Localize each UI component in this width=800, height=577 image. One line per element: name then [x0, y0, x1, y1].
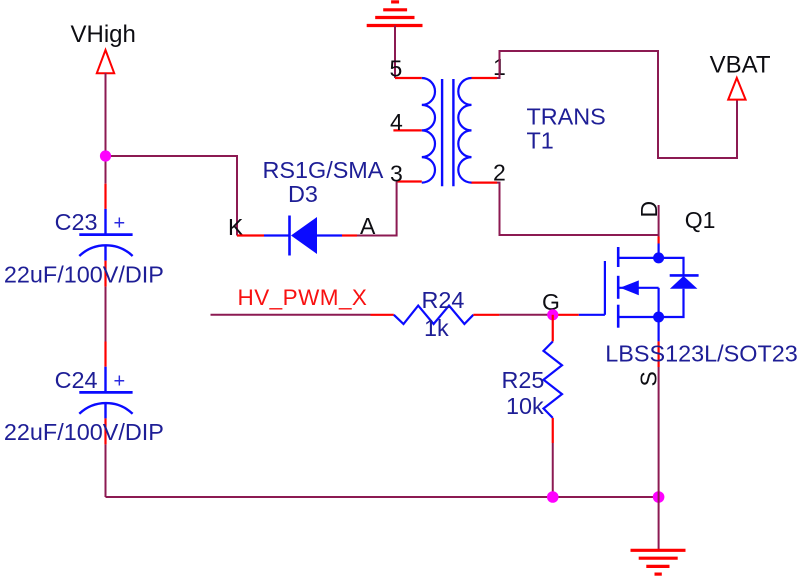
svg-text:TRANS: TRANS: [527, 103, 606, 129]
svg-text:C23: C23: [55, 209, 98, 235]
wire pin2 to Q1 drain: [497, 183, 659, 235]
R24 right pin stub: [473, 314, 499, 316]
Q1 gate pin stub: [553, 314, 579, 316]
Q1 body to source: [657, 288, 659, 317]
C24 bottom plate arc: [79, 403, 132, 414]
svg-text:D: D: [636, 201, 662, 218]
wire C23 to C24: [105, 287, 107, 342]
core lines: [441, 79, 443, 186]
D3 cathode pin stub: [237, 234, 264, 236]
svg-text:5: 5: [390, 56, 403, 82]
wire ground to transformer pin 5: [394, 26, 396, 79]
C23 bottom lead: [104, 246, 106, 261]
D3 cathode bar: [288, 216, 291, 256]
Q1 drain pin lead: [657, 244, 659, 258]
svg-text:4: 4: [390, 109, 403, 135]
svg-text:+: +: [114, 213, 126, 235]
svg-text:+: +: [114, 370, 126, 392]
Q1 source lead: [618, 316, 658, 318]
svg-text:VBAT: VBAT: [710, 52, 771, 79]
C24 top lead: [104, 367, 106, 393]
svg-text:HV_PWM_X: HV_PWM_X: [238, 285, 368, 310]
C24 bottom lead: [104, 403, 106, 418]
R25 bottom pin stub: [552, 418, 554, 443]
svg-text:22uF/100V/DIP: 22uF/100V/DIP: [4, 419, 164, 445]
resistor R24: [371, 287, 500, 341]
wire HV_PWM_X to R24: [211, 314, 371, 316]
primary winding left: [422, 78, 435, 183]
Q1 drain lead: [618, 257, 658, 259]
power symbol VHigh: [97, 50, 114, 73]
C23 bottom plate arc: [79, 245, 132, 256]
wire pin1 to VBAT: [497, 51, 737, 158]
svg-text:10k: 10k: [506, 393, 544, 419]
Q1 source pin lead: [657, 317, 659, 341]
svg-text:RS1G/SMA: RS1G/SMA: [263, 157, 384, 183]
power symbol VBAT: [728, 78, 745, 100]
R25 zigzag: [544, 342, 563, 418]
pin 1: [472, 77, 498, 79]
R24 left pin stub: [371, 314, 394, 316]
D3 cathode lead: [264, 234, 290, 236]
C24 bottom pin stub: [104, 418, 106, 444]
C23 top pin stub: [104, 184, 106, 209]
Q1 source pin stub: [657, 341, 659, 367]
C23 top lead: [104, 209, 106, 235]
Q1 drain junction dot: [653, 252, 664, 263]
capacitor C24: [4, 342, 164, 446]
wire R24 to gate node: [499, 314, 552, 316]
transistor Q1: [553, 207, 798, 387]
pin 4: [393, 129, 421, 131]
svg-text:1k: 1k: [424, 315, 449, 341]
C23 top plate: [79, 233, 132, 236]
svg-text:S: S: [635, 371, 661, 386]
pin 2: [472, 182, 498, 184]
Q1 body lead with arrow: [618, 287, 658, 289]
Q1 body diode: [659, 258, 684, 276]
C23 bottom pin stub: [104, 261, 106, 287]
R25 top pin stub: [552, 315, 554, 342]
wire Q1 source to ground: [658, 367, 660, 497]
Q1 channel dashes: [617, 247, 620, 328]
svg-text:T1: T1: [527, 128, 554, 154]
ground GND2 (bottom): [631, 550, 686, 574]
C24 top plate: [79, 391, 132, 394]
D3 anode pin stub: [342, 234, 357, 236]
wire R25 to bottom rail: [552, 443, 554, 497]
svg-text:Q1: Q1: [685, 207, 716, 233]
junction at gate node G: [547, 309, 558, 320]
pin 3: [397, 180, 422, 182]
wire rail to bottom ground: [658, 497, 660, 552]
Q1 drain pin stub: [657, 237, 659, 244]
junction R25 at bottom rail: [547, 491, 559, 503]
diode D3: [228, 157, 384, 256]
junction Q1 source at bottom rail: [653, 491, 665, 503]
transformer T1: [390, 54, 606, 187]
svg-text:22uF/100V/DIP: 22uF/100V/DIP: [4, 261, 164, 287]
svg-text:D3: D3: [288, 181, 318, 207]
resistor R25: [502, 315, 563, 443]
svg-text:C24: C24: [55, 367, 98, 393]
D3 triangle: [291, 217, 317, 254]
svg-text:R25: R25: [502, 367, 545, 393]
secondary winding right: [458, 78, 471, 183]
Q1 source junction dot: [653, 312, 664, 323]
svg-text:VHigh: VHigh: [71, 21, 136, 48]
wire Q1 drain stub: [658, 205, 660, 237]
R24 zigzag: [394, 306, 474, 324]
wire VHigh down to C23: [105, 73, 107, 184]
wire VHigh junction to D3 corner: [106, 156, 238, 236]
capacitor C23: [4, 184, 164, 288]
svg-text:R24: R24: [422, 287, 465, 313]
wire D3 anode to transformer pin 3: [357, 182, 397, 236]
ground GND1 (top): [367, 2, 423, 26]
C24 top pin stub: [104, 342, 106, 367]
pin 5: [395, 77, 422, 79]
Q1 gate bar: [604, 261, 606, 315]
wire bottom rail: [106, 496, 659, 498]
wire C24 to bottom rail: [105, 444, 107, 497]
junction at VHigh node: [100, 150, 111, 161]
svg-text:LBSS123L/SOT23: LBSS123L/SOT23: [605, 341, 797, 367]
D3 anode lead: [317, 234, 343, 236]
Q1 gate lead: [579, 314, 605, 316]
